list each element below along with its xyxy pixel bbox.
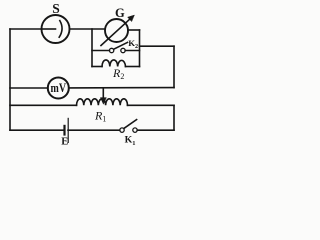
phototube S — [42, 15, 70, 43]
svg-text:S: S — [52, 1, 60, 16]
wire R2 row left — [92, 66, 102, 68]
svg-text:G: G — [115, 6, 125, 20]
wire K2 row left — [92, 50, 109, 52]
wire branch left column of G box — [91, 29, 93, 67]
wire mV left lead — [10, 87, 48, 89]
wire bottom left — [10, 129, 65, 131]
wire S to G — [70, 28, 106, 30]
switch K2 — [109, 42, 127, 52]
wire mV row right — [69, 87, 174, 89]
slider arrow onto R1 — [100, 88, 106, 104]
resistor coil R2 — [102, 60, 126, 67]
wire bottom right — [137, 129, 174, 131]
wire K2 row right — [125, 50, 139, 52]
wire box exit to right — [140, 45, 175, 47]
wire left vertical — [9, 29, 11, 130]
svg-text:E: E — [61, 136, 68, 147]
battery E — [65, 118, 69, 142]
switch K1 — [120, 120, 137, 133]
wire right vertical upper — [173, 46, 175, 87]
wire R1 row left — [10, 104, 77, 106]
wire right vertical lower — [173, 105, 175, 130]
millivoltmeter mV — [48, 78, 69, 99]
wire top left to S — [10, 28, 42, 30]
wire R1 row right — [128, 104, 175, 106]
wire right column of G box — [139, 30, 141, 67]
svg-text:mV: mV — [51, 80, 67, 95]
galvanometer G — [101, 15, 134, 45]
wire R2 row right — [126, 66, 140, 68]
wire G right lead — [128, 29, 140, 31]
wire bottom between battery and K1 — [68, 129, 120, 131]
resistor coil R1 — [77, 99, 128, 106]
